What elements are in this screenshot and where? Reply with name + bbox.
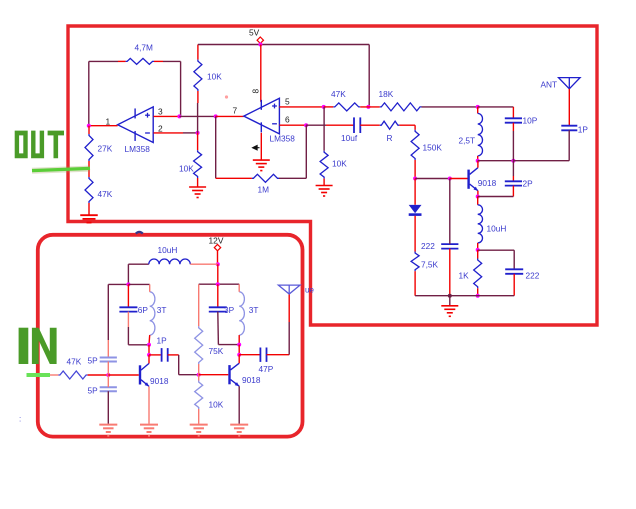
junction pin6 node (304, 123, 308, 127)
wire emitter node to 10uH (477, 197, 479, 205)
junction pin5 node (322, 105, 326, 109)
svg-text:10uH: 10uH (487, 224, 507, 234)
transistor Q1 9018 (467, 170, 469, 189)
wire pin2 node down (197, 133, 199, 150)
svg-text:R: R (387, 133, 393, 143)
junction input node (106, 373, 110, 377)
resistor 18K (380, 103, 422, 111)
junction tank2 top (216, 282, 220, 286)
junction tank2 bottom (237, 343, 241, 347)
power port 12V diamond (214, 244, 220, 250)
svg-text:150K: 150K (423, 143, 443, 153)
svg-text:9018: 9018 (150, 376, 169, 386)
resistor 27K (85, 134, 93, 161)
antenna bottom box (278, 285, 300, 294)
wire 47P row right (267, 354, 290, 356)
inductor 3T tank1 (150, 292, 155, 335)
resistor 1M (252, 174, 279, 182)
wire corner to 222 cap (513, 250, 515, 269)
wire 3P bottom (217, 312, 220, 345)
diode D1 (409, 205, 422, 213)
wire 1M loop bottom-left (216, 177, 252, 179)
wire pin5 to 47K (324, 106, 334, 108)
wire feedback right vertical (180, 61, 182, 116)
ground under 10K mid-right (316, 185, 333, 187)
junction pin1 (87, 124, 91, 128)
resistor 10K mid-left (194, 150, 202, 178)
border of bottom circuit block (red rounded outline) (38, 235, 303, 437)
op-amp U2 plus input (272, 105, 277, 107)
wire emitter down (477, 191, 479, 197)
wire 27K top (88, 126, 90, 134)
wire coil bottom (477, 156, 479, 161)
wire 27K-47K (88, 161, 90, 177)
wire pin2 maroon segment (183, 132, 198, 134)
wire 5P lower to ground (107, 391, 109, 424)
transistor Q2 9018 (139, 365, 141, 384)
IN pointer line (27, 373, 51, 377)
svg-text:2P: 2P (523, 179, 534, 189)
capacitor 5P lower (100, 386, 117, 388)
ground under 5P (99, 424, 117, 426)
wire 10K to pin2 node (197, 103, 199, 133)
svg-text:7: 7 (233, 106, 238, 116)
wire mid to antenna corner (513, 160, 569, 162)
wire mid node to 2P (512, 161, 514, 176)
wire 3T bottom stub (148, 335, 151, 345)
antenna ANT top (559, 78, 581, 89)
svg-text:2: 2 (158, 123, 163, 133)
op-amp U2 vee wire to ground (260, 133, 262, 160)
capacitor 222 mid (441, 243, 458, 245)
svg-text:5: 5 (285, 96, 290, 106)
tank1 top row left (108, 283, 128, 285)
wire feedback top-right maroon (163, 60, 181, 62)
junction emitter node (476, 195, 480, 199)
junction collector node Q2 (147, 353, 151, 357)
wire 3P elbow horizontal (218, 344, 239, 346)
svg-text::: : (19, 415, 21, 424)
wire 5V rail horizontal (198, 44, 369, 46)
OUT pointer line (32, 168, 90, 170)
wire 10K top to rail (197, 45, 199, 60)
resistor 47K row (333, 103, 360, 111)
tank1 left branch lower (107, 340, 109, 357)
svg-text:9018: 9018 (242, 375, 261, 385)
partial glyph artifact on border (136, 232, 143, 234)
wire 10uH row right (190, 263, 218, 265)
capacitor 222 right (505, 268, 523, 270)
junction coil bottom (476, 159, 480, 163)
wire node to 222 corner (478, 249, 515, 251)
wire 1P corner to base node (179, 374, 199, 376)
wire diode top (414, 179, 416, 205)
resistor 47K left (85, 177, 93, 203)
label IN (19, 328, 29, 364)
junction mid column (511, 159, 515, 163)
wire corner down to 150K (414, 125, 416, 130)
wire pin5 out (279, 106, 323, 108)
inductor 3T tank2 (239, 292, 244, 335)
border of top circuit block (red outline) (68, 26, 597, 325)
svg-text:8: 8 (251, 89, 261, 94)
power port 5V diamond (257, 37, 263, 43)
svg-text:10P: 10P (523, 115, 538, 125)
wire 6P top (127, 284, 129, 307)
svg-text:3T: 3T (249, 305, 259, 315)
wire 222 to bottom row (513, 274, 515, 296)
svg-text:10uf: 10uf (341, 133, 358, 143)
op-amp U1 LM358 (118, 107, 154, 143)
junction Q3 base node (197, 373, 201, 377)
junction 1K bottom (476, 294, 480, 298)
svg-text:3: 3 (158, 107, 163, 117)
wire 150K to base node (414, 160, 416, 179)
wire base row maroon (415, 178, 450, 180)
wire pin6 red (279, 124, 306, 126)
wire 18K to coil node (422, 106, 478, 108)
svg-text:1P: 1P (157, 336, 168, 346)
wire 1P row right (168, 354, 179, 356)
input wire (50, 374, 59, 376)
wire 10uf to R (360, 124, 380, 126)
resistor 150K (411, 130, 419, 160)
junction 10uH bottom (476, 248, 480, 252)
junction bottom row 222 (448, 294, 452, 298)
wire 222 mid top (449, 179, 451, 245)
wire Q2 collector (148, 355, 150, 364)
wire 1K bottom (477, 288, 479, 295)
op-amp U1 minus input (145, 132, 150, 134)
wire 2P red stub (512, 176, 514, 181)
wire 10K to ground 2 (197, 178, 199, 187)
svg-text:47P: 47P (259, 364, 274, 374)
ground bottom right (441, 305, 458, 307)
capacitor 3P (209, 306, 227, 308)
tank2 left branch (198, 284, 200, 326)
junction tank1 bottom (147, 343, 151, 347)
wire rail to op-amp2 vcc (260, 45, 262, 102)
svg-text:1: 1 (106, 116, 111, 126)
svg-text:47K: 47K (67, 357, 82, 367)
wire pin6 to 10uf (326, 124, 354, 126)
junction tank1 top (126, 282, 130, 286)
wire Q3 collector (238, 355, 240, 364)
wire R to 150K corner (399, 124, 415, 126)
wire tank1 to collector node (148, 345, 150, 355)
wire bottom row (415, 295, 514, 297)
wire 1M loop bottom-right (279, 177, 306, 179)
svg-text:5V: 5V (249, 28, 260, 38)
wire coil node to 10P corner (478, 106, 514, 108)
wire left corner down (127, 264, 129, 284)
svg-text:9018: 9018 (478, 178, 497, 188)
wire 12V rail to tank2 (217, 264, 219, 284)
capacitor 5P upper (100, 357, 117, 359)
ground under Q2 (140, 424, 158, 426)
ground under Q3 (230, 424, 248, 426)
wire diode to 222 label area (414, 216, 416, 252)
junction 47K-18K (366, 105, 370, 109)
wire 1P to mid row (568, 130, 570, 160)
wire 1K top (477, 250, 479, 259)
svg-text:222: 222 (526, 271, 540, 281)
junction 222 column top (448, 177, 452, 181)
wire node to 10P/2P mid (478, 160, 514, 162)
wire pin3 red segment (154, 115, 180, 117)
svg-text:7,5K: 7,5K (421, 260, 439, 270)
wire base row red (450, 178, 468, 180)
stray pink dot artifact (225, 95, 228, 98)
wire rail right vertical (368, 45, 370, 107)
resistor 10K bias (195, 381, 203, 410)
svg-text:3T: 3T (157, 305, 167, 315)
wire pin3 to pin7 node (179, 115, 215, 117)
tank1 left branch (107, 284, 109, 340)
capacitor 6P (119, 306, 137, 308)
inductor 10uH top circuit (478, 205, 483, 243)
capacitor 47P (259, 348, 261, 362)
wire 6P elbow horizontal (128, 344, 149, 346)
wire 10K mid-right top (323, 107, 325, 151)
svg-text:47K: 47K (98, 189, 113, 199)
wire 12V down (217, 251, 219, 264)
wire ground stub (449, 296, 451, 306)
pin 4 arrow mark (253, 146, 260, 150)
wire 3P top (217, 284, 219, 307)
wire Q2 emitter down (148, 386, 150, 423)
svg-text:10K: 10K (209, 400, 224, 410)
wire 47P row left (239, 354, 260, 356)
svg-text:10uH: 10uH (158, 245, 178, 255)
inductor 2.5T (478, 113, 483, 155)
svg-text:27K: 27K (98, 144, 113, 154)
resistor 7.5K (411, 252, 419, 272)
svg-text:6: 6 (285, 115, 290, 125)
wire 47K to ground (88, 203, 90, 215)
wire 5V to rail (259, 43, 261, 44)
svg-text:LM358: LM358 (270, 133, 296, 143)
svg-text:1P: 1P (578, 124, 589, 134)
wire 3T tank2 bottom stub (238, 335, 240, 345)
ground under 10K mid-left (189, 186, 206, 188)
ground under 10K bias (190, 424, 208, 426)
wire feedback left vertical (88, 61, 90, 125)
capacitor 10P (505, 117, 522, 119)
wire 10uH to node (477, 243, 479, 250)
svg-text:LM358: LM358 (125, 144, 151, 154)
svg-text:3P: 3P (224, 305, 235, 315)
inductor 10uH bottom box (149, 259, 191, 264)
wire 10K mid-right to ground (323, 179, 325, 186)
wire 47K to 5P node (88, 374, 109, 376)
wire 222 mid bottom (449, 249, 451, 296)
resistor 10K upper (194, 60, 202, 91)
resistor R (380, 121, 400, 129)
resistor 75K (195, 326, 203, 364)
wire 10P to mid node (512, 131, 514, 161)
svg-text:47K: 47K (331, 89, 346, 99)
wire pin2 red segment (154, 132, 184, 134)
wire Q3 base (199, 374, 229, 376)
wire 1M loop right vertical (305, 125, 307, 178)
junction collector node Q3 (237, 353, 241, 357)
OUT pointer halo (32, 169, 90, 171)
junction coil top (476, 105, 480, 109)
junction 5V rail (258, 43, 262, 47)
wire node to op-amp2 input (216, 115, 244, 117)
junction 150K base node (413, 177, 417, 181)
tank1 top row right (128, 283, 149, 285)
wire 7.5K to bottom row (414, 271, 416, 296)
wire 75K to base node (198, 364, 200, 375)
transistor Q3 9018 (228, 365, 230, 384)
resistor 10K mid-right (320, 151, 328, 179)
capacitor 1P antenna (561, 125, 577, 127)
wire feedback top-left red (118, 60, 126, 62)
junction pin2 node (196, 131, 200, 135)
wire pin6 maroon (306, 124, 326, 126)
svg-text:5P: 5P (88, 356, 99, 366)
svg-text:1K: 1K (459, 271, 470, 281)
wire 10P red stub (512, 123, 514, 131)
tank2 top row (199, 283, 240, 285)
wire feedback top-right red (154, 60, 163, 62)
svg-text:4,7M: 4,7M (135, 43, 154, 53)
wire 10K bias top (198, 375, 200, 381)
wire Q3 emitter down (238, 386, 240, 424)
wire antenna down (568, 89, 570, 126)
wire antenna2 maroon (288, 322, 290, 355)
op-amp U2 minus input (272, 123, 277, 125)
ground under op-amp U2 (253, 159, 270, 161)
junction 12V rail (216, 262, 220, 266)
wire 6P bottom (127, 312, 129, 327)
resistor 47K input (58, 371, 87, 379)
wire 10P corner down (512, 107, 514, 118)
wire 3T top stub (149, 284, 151, 291)
wire 10K bottom red (197, 91, 199, 103)
svg-text:12V: 12V (209, 235, 224, 245)
op-amp U2 LM358 (244, 98, 280, 134)
junction pin3 feedback (177, 114, 181, 118)
ground under 47K (80, 214, 98, 216)
svg-text:ANT: ANT (541, 80, 558, 90)
wire 10K bias to ground (198, 409, 200, 424)
wire antenna2 red (288, 294, 290, 322)
capacitor 1P coupling (161, 348, 163, 362)
wire 2P to emitter node (478, 196, 514, 198)
wire 10uH row left corner (128, 263, 148, 265)
resistor 1K (474, 259, 482, 289)
wire tank2 to collector node (238, 345, 240, 355)
wire collector up (477, 161, 479, 168)
svg-text:ue: ue (305, 286, 314, 295)
svg-text:6P: 6P (138, 305, 149, 315)
wire 47K to 18K (360, 106, 380, 108)
svg-text:10K: 10K (207, 72, 222, 82)
wire feedback top-left maroon (89, 60, 118, 62)
capacitor 2P (505, 180, 522, 182)
wire input node to base (108, 374, 139, 376)
svg-text:18K: 18K (379, 89, 394, 99)
junction pin7 node (214, 114, 218, 118)
resistor R 4.7M (126, 58, 154, 64)
svg-text:2,5T: 2,5T (459, 136, 476, 146)
wire between 5P caps (107, 362, 109, 388)
svg-text:222: 222 (421, 241, 435, 251)
wire 6P elbow vertical (127, 327, 129, 345)
wire 1P row left (149, 354, 161, 356)
svg-text:1M: 1M (258, 185, 270, 195)
wire coil top stub (477, 107, 479, 114)
svg-text:10K: 10K (179, 164, 194, 174)
wire 1P corner down (178, 355, 180, 375)
wire pin1 to node (89, 125, 118, 127)
svg-text:5P: 5P (88, 386, 99, 396)
svg-text:75K: 75K (209, 346, 224, 356)
wire 1M loop left vertical (215, 116, 217, 178)
op-amp U1 plus input (145, 114, 150, 116)
capacitor 10K node 10uf (353, 117, 355, 133)
wire 3T tank2 top stub (238, 284, 240, 292)
wire 2P down (512, 186, 514, 197)
svg-text:10K: 10K (332, 159, 347, 169)
label OUT (15, 131, 28, 159)
